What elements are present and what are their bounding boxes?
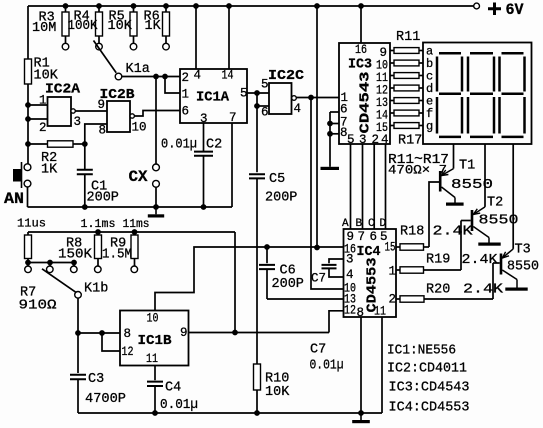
svg-text:g: g bbox=[426, 119, 433, 133]
svg-text:4: 4 bbox=[194, 69, 202, 83]
svg-text:8: 8 bbox=[99, 124, 107, 138]
switch K1a wiper bbox=[94, 41, 117, 73]
node IC2C pin5 bbox=[254, 90, 260, 96]
svg-text:1: 1 bbox=[39, 94, 47, 108]
svg-text:A: A bbox=[342, 218, 349, 230]
node C6 top bbox=[264, 244, 270, 250]
capacitor C7 bbox=[329, 259, 344, 263]
svg-text:B: B bbox=[356, 218, 363, 230]
resistor R8 bbox=[97, 232, 99, 235]
wire R1 to button bbox=[27, 84, 29, 164]
wire display common 1 bbox=[453, 144, 455, 169]
wire IC2B out to IC1A pin6 bbox=[134, 111, 180, 117]
wire IC1B pin9 out bbox=[188, 332, 329, 334]
svg-text:16: 16 bbox=[355, 43, 367, 57]
svg-text:910Ω: 910Ω bbox=[19, 299, 57, 314]
svg-text:C4: C4 bbox=[165, 381, 181, 396]
resistor R17 seg g bbox=[390, 125, 394, 127]
display digit segments bbox=[437, 53, 525, 137]
contact K1b 1 bbox=[27, 263, 29, 267]
svg-text:R17: R17 bbox=[398, 134, 422, 149]
svg-text:K1a: K1a bbox=[126, 62, 150, 77]
wire K1b to IC1B bbox=[77, 298, 79, 333]
node IC2A pin1 bbox=[25, 102, 31, 108]
svg-text:R20: R20 bbox=[426, 283, 450, 298]
resistor R15 seg e bbox=[390, 100, 394, 102]
wire ground rail lower bbox=[78, 412, 382, 414]
node top rail R4 bbox=[96, 3, 102, 9]
svg-text:8550: 8550 bbox=[479, 214, 519, 229]
svg-text:R11: R11 bbox=[396, 30, 420, 45]
svg-text:9: 9 bbox=[180, 326, 188, 340]
transistor T2 8550 bbox=[471, 210, 474, 231]
wire T2 base bbox=[461, 220, 471, 222]
svg-text:T2: T2 bbox=[487, 196, 503, 211]
contact K1b R9 bbox=[131, 266, 138, 273]
svg-text:5: 5 bbox=[261, 78, 269, 92]
wire IC3 pin7 stub bbox=[330, 123, 339, 125]
wire IC2A pin1 bbox=[28, 104, 48, 106]
wire IC2A pin2 bbox=[28, 118, 48, 120]
svg-text:IC4:CD4553: IC4:CD4553 bbox=[389, 401, 470, 416]
svg-text:100K: 100K bbox=[68, 19, 99, 34]
wire Vdd drop to pin16 net bbox=[316, 6, 318, 248]
wire IC3 pins 6-7-8 tie bbox=[329, 112, 331, 167]
node top rail pin14 bbox=[226, 3, 232, 9]
svg-text:0.01µ: 0.01µ bbox=[310, 359, 344, 374]
svg-text:9: 9 bbox=[347, 230, 355, 244]
resistor R13 seg c bbox=[390, 75, 394, 77]
wire pin9 to IC4 pin12 bbox=[329, 311, 344, 333]
node R10 gnd bbox=[254, 410, 260, 416]
svg-text:2: 2 bbox=[389, 293, 397, 307]
svg-text:200P: 200P bbox=[265, 191, 297, 206]
svg-text:C7: C7 bbox=[311, 272, 326, 286]
node latch line bbox=[308, 95, 314, 101]
svg-text:IC1:NE556: IC1:NE556 bbox=[387, 344, 456, 359]
svg-text:6: 6 bbox=[340, 103, 348, 117]
svg-text:7: 7 bbox=[358, 230, 366, 244]
svg-text:0.01µ: 0.01µ bbox=[160, 398, 198, 413]
wire CX from K1a bbox=[155, 77, 157, 165]
svg-text:AN: AN bbox=[4, 190, 24, 208]
svg-text:C7: C7 bbox=[310, 343, 326, 358]
node IC2A pin2 bbox=[25, 116, 31, 122]
resistor R2 bbox=[28, 143, 48, 145]
wire IC1B pin8 bbox=[78, 332, 120, 334]
resistor R16 seg f bbox=[390, 112, 394, 114]
wire feedback drop bbox=[234, 232, 236, 333]
display module bbox=[423, 43, 532, 145]
contact R4 bbox=[96, 43, 103, 50]
svg-text:1: 1 bbox=[389, 265, 397, 279]
node feedback bbox=[232, 330, 238, 336]
svg-text:R19: R19 bbox=[426, 253, 450, 268]
wire IC1B pin12 loop bbox=[102, 333, 120, 351]
svg-text:8550: 8550 bbox=[507, 260, 539, 275]
svg-text:IC2A: IC2A bbox=[45, 82, 81, 98]
resistor R9 bbox=[134, 232, 136, 235]
wire IC4 pin8 down bbox=[360, 317, 362, 413]
resistor R1 bbox=[25, 59, 32, 84]
svg-text:7: 7 bbox=[229, 111, 237, 125]
svg-text:1.1ms: 1.1ms bbox=[81, 217, 116, 231]
node pin8 net bbox=[75, 330, 81, 336]
resistor R10 bbox=[254, 364, 261, 390]
terminal CX top bbox=[153, 164, 160, 171]
wire left rail top bbox=[27, 6, 29, 59]
node top rail pin4 bbox=[193, 3, 199, 9]
svg-text:IC2:CD4011: IC2:CD4011 bbox=[387, 362, 467, 377]
wire IC2C out to IC3 pin1 bbox=[296, 97, 339, 99]
wire timebase top bbox=[28, 231, 235, 233]
wire Vdd net bbox=[155, 247, 344, 310]
resistor R14 seg d bbox=[390, 87, 394, 89]
terminal CX bottom bbox=[153, 180, 160, 187]
resistor R20 bbox=[396, 298, 400, 300]
wire display common 3 bbox=[512, 144, 514, 249]
svg-text:1K: 1K bbox=[41, 163, 58, 178]
svg-text:C2: C2 bbox=[206, 138, 222, 153]
node top rail R3 bbox=[63, 3, 69, 9]
wire IC3 pin16 to rail bbox=[360, 6, 362, 43]
contact R5 bbox=[130, 43, 137, 50]
node R7 bottom bbox=[25, 260, 31, 266]
node tie mid bbox=[47, 260, 53, 266]
wire CX to ground bbox=[155, 187, 157, 207]
wire IC1A pin14 to rail bbox=[228, 6, 230, 69]
node top rail R5 bbox=[131, 3, 137, 9]
gate IC2C bbox=[269, 83, 292, 114]
svg-text:K1b: K1b bbox=[84, 282, 108, 297]
svg-text:10K: 10K bbox=[265, 385, 290, 400]
node CX gnd bbox=[153, 204, 159, 210]
wire latch line to IC4 pin10 bbox=[311, 98, 344, 290]
IC IC1B bbox=[120, 311, 189, 366]
svg-text:3: 3 bbox=[74, 115, 82, 129]
wire pin7 drop bbox=[231, 123, 233, 207]
contact R6 bbox=[163, 43, 170, 50]
svg-text:IC2C: IC2C bbox=[268, 68, 305, 84]
svg-text:1: 1 bbox=[182, 88, 190, 102]
node C2 gnd bbox=[201, 204, 207, 210]
svg-text:9: 9 bbox=[98, 98, 106, 112]
svg-text:11us: 11us bbox=[17, 217, 46, 231]
svg-text:5: 5 bbox=[240, 87, 248, 101]
transistor T1 8550 bbox=[439, 171, 442, 192]
capacitor C6 bbox=[266, 247, 268, 263]
gate IC2A bbox=[48, 97, 72, 126]
node R8 top bbox=[95, 229, 101, 235]
svg-text:8: 8 bbox=[124, 327, 132, 341]
wire BCD A bbox=[350, 144, 352, 229]
svg-text:D: D bbox=[380, 218, 387, 230]
wire IC2A out to IC2B bbox=[75, 110, 107, 112]
capacitor C4 bbox=[154, 366, 156, 380]
node pin8-12 tie bbox=[99, 330, 105, 336]
resistor R7 bbox=[27, 232, 29, 235]
svg-text:2: 2 bbox=[39, 121, 47, 135]
node IC4 gnd bbox=[358, 410, 364, 416]
svg-text:10: 10 bbox=[132, 121, 147, 135]
wire button to ground rail bbox=[27, 187, 29, 207]
node top rail IC3 pin16 bbox=[358, 3, 364, 9]
svg-text:IC3: IC3 bbox=[348, 57, 372, 73]
svg-text:1.5M: 1.5M bbox=[102, 248, 132, 263]
svg-text:10M: 10M bbox=[32, 21, 56, 36]
resistor R4 bbox=[98, 6, 100, 12]
wire IC3 pin6 stub bbox=[330, 111, 339, 113]
capacitor C3 bbox=[77, 333, 79, 373]
switch K1b wiper bbox=[42, 269, 76, 293]
node CX branch bbox=[153, 74, 159, 80]
svg-text:IC1B: IC1B bbox=[138, 333, 173, 349]
contact K1b R8 bbox=[95, 266, 102, 273]
capacitor C1 bbox=[84, 144, 86, 169]
wire K1a to IC1A bbox=[122, 76, 180, 78]
svg-text:4: 4 bbox=[294, 102, 302, 116]
svg-text:R18: R18 bbox=[400, 225, 424, 240]
wire R20 to T3 bbox=[492, 263, 494, 299]
svg-text:CD4543: CD4543 bbox=[358, 72, 374, 134]
svg-text:10K: 10K bbox=[108, 19, 133, 34]
node R9 top bbox=[132, 229, 138, 235]
IC IC4 CD4553 bbox=[344, 229, 397, 317]
power terminal +6V bbox=[474, 3, 480, 9]
label +6V bbox=[488, 3, 501, 16]
svg-text:C3: C3 bbox=[88, 372, 104, 387]
svg-text:12: 12 bbox=[344, 304, 356, 318]
svg-text:3: 3 bbox=[346, 253, 354, 267]
svg-text:11ms: 11ms bbox=[123, 217, 150, 231]
resistor R6 bbox=[165, 6, 167, 12]
svg-text:8550: 8550 bbox=[451, 178, 493, 193]
node top rail Vdd line bbox=[314, 3, 320, 9]
node R2 right bbox=[82, 141, 88, 147]
wire C6 to IC4 pin13 bbox=[267, 298, 344, 300]
svg-text:150K: 150K bbox=[58, 248, 93, 263]
IC IC3 CD4543 bbox=[339, 43, 390, 144]
wire IC2C pin6 stub bbox=[257, 105, 269, 107]
svg-text:1K: 1K bbox=[145, 19, 162, 34]
node top rail R6 bbox=[163, 3, 169, 9]
contact K1b 2 bbox=[49, 263, 51, 267]
wire +6V top rail bbox=[28, 5, 474, 7]
svg-text:0.01µ: 0.01µ bbox=[161, 138, 197, 153]
wire T3 base bbox=[493, 262, 500, 264]
svg-text:C: C bbox=[368, 218, 375, 230]
ground symbol IC3 bbox=[321, 167, 340, 170]
svg-text:12: 12 bbox=[122, 345, 134, 359]
svg-text:C5: C5 bbox=[269, 172, 285, 187]
node tie right bbox=[71, 260, 77, 266]
node C1 gnd bbox=[82, 204, 88, 210]
pushbutton AN bbox=[24, 164, 31, 171]
svg-text:CX: CX bbox=[129, 168, 149, 186]
wire IC1A pin5 to IC2C bbox=[247, 92, 269, 94]
svg-text:6: 6 bbox=[182, 105, 190, 119]
resistor R18 bbox=[396, 246, 400, 248]
contact K1b 3 bbox=[73, 263, 75, 267]
svg-text:6: 6 bbox=[261, 106, 269, 120]
gate IC2B bbox=[107, 101, 130, 132]
IC IC1A bbox=[180, 69, 247, 123]
wire BCD D bbox=[385, 144, 387, 229]
svg-text:10: 10 bbox=[147, 312, 159, 326]
wire IC2B pin8 to R2 node bbox=[85, 124, 107, 144]
svg-text:15: 15 bbox=[385, 241, 396, 255]
svg-text:2: 2 bbox=[372, 133, 380, 147]
wire BCD C bbox=[373, 144, 375, 229]
capacitor C2 bbox=[203, 123, 205, 151]
ground symbol upper bbox=[155, 207, 157, 214]
svg-text:470Ω× 7: 470Ω× 7 bbox=[388, 164, 447, 178]
svg-text:6: 6 bbox=[370, 230, 378, 244]
wire BCD B bbox=[362, 144, 364, 229]
wire jog to IC1A pin1 bbox=[165, 77, 180, 94]
ground symbol lower bbox=[360, 413, 362, 420]
svg-text:6V: 6V bbox=[506, 1, 525, 19]
wire IC1A pin4 to rail bbox=[195, 6, 197, 69]
transistor T3 8550 bbox=[500, 254, 503, 275]
node pin1 branch bbox=[162, 74, 168, 80]
svg-text:2.4K: 2.4K bbox=[463, 283, 504, 298]
wire ground rail upper bbox=[28, 206, 233, 208]
resistor R5 bbox=[133, 6, 135, 12]
resistor R19 bbox=[396, 269, 400, 271]
svg-text:4: 4 bbox=[346, 268, 354, 282]
wire display common 2 bbox=[484, 144, 486, 207]
node IC2C pin6 bbox=[254, 103, 260, 109]
node Vdd drop bbox=[314, 245, 320, 251]
svg-text:11: 11 bbox=[146, 352, 158, 366]
svg-text:T3: T3 bbox=[515, 243, 531, 258]
wire contact tie bbox=[28, 262, 74, 264]
node C4 gnd bbox=[152, 410, 158, 416]
capacitor C5 bbox=[256, 93, 258, 172]
wire IC3 pin8 stub bbox=[330, 133, 339, 135]
wire T1 base bbox=[429, 182, 439, 247]
svg-text:IC1A: IC1A bbox=[196, 90, 230, 106]
contact R3 bbox=[62, 43, 69, 50]
wire IC4 pin11 down bbox=[381, 317, 383, 413]
svg-text:2: 2 bbox=[182, 71, 190, 85]
svg-text:14: 14 bbox=[222, 69, 234, 83]
svg-text:T1: T1 bbox=[459, 159, 475, 174]
svg-text:11: 11 bbox=[374, 305, 386, 319]
wire R19 to T2 bbox=[460, 221, 462, 271]
svg-text:200P: 200P bbox=[272, 277, 304, 292]
svg-text:200P: 200P bbox=[87, 191, 119, 206]
resistor R11 seg a bbox=[390, 50, 394, 52]
node R2 left bbox=[25, 141, 31, 147]
svg-text:2.4K: 2.4K bbox=[433, 225, 474, 240]
resistor R12 seg b bbox=[390, 62, 394, 64]
svg-text:4700P: 4700P bbox=[85, 392, 126, 407]
svg-text:IC3:CD4543: IC3:CD4543 bbox=[389, 381, 470, 396]
resistor R3 bbox=[65, 6, 67, 12]
